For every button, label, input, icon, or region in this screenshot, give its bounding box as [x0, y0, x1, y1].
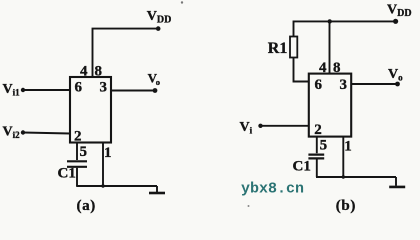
- ground (a): [156, 186, 158, 192]
- node junction rail (b): [328, 19, 332, 23]
- wire output pin3 (a): [111, 90, 154, 92]
- svg-text:Vi: Vi: [240, 120, 253, 136]
- node VDD terminal (a): [156, 26, 161, 31]
- svg-text:C1: C1: [58, 166, 76, 182]
- wire input Vi1 (a): [23, 89, 70, 91]
- svg-text:(b): (b): [336, 198, 356, 214]
- node Vi terminal (b): [258, 124, 262, 128]
- speck top right: [181, 1, 183, 3]
- svg-text:Vi2: Vi2: [3, 125, 21, 141]
- svg-text:6: 6: [315, 77, 323, 93]
- svg-text:3: 3: [340, 77, 348, 93]
- node Vi2 terminal (a): [21, 130, 25, 134]
- wire pin5 stub (a): [76, 143, 78, 161]
- node Vo terminal (b): [395, 82, 400, 87]
- wire bottom rail (b): [316, 176, 396, 178]
- wire output pin3 (b): [351, 83, 396, 85]
- node Vi1 terminal (a): [21, 88, 25, 92]
- svg-text:VDD: VDD: [147, 9, 172, 26]
- svg-text:4: 4: [319, 60, 327, 76]
- wire R1 bottom to pin6 (b): [294, 58, 309, 82]
- wire pin5 stub (b): [316, 137, 318, 154]
- speck bottom left: [248, 205, 250, 207]
- svg-text:1: 1: [344, 138, 352, 154]
- svg-text:VDD: VDD: [387, 3, 412, 20]
- svg-text:R1: R1: [268, 40, 288, 57]
- wire VDD top rail (b): [294, 21, 396, 36]
- svg-text:2: 2: [74, 128, 82, 144]
- ground (b): [395, 177, 397, 186]
- svg-text:ybx8.cn: ybx8.cn: [241, 181, 304, 198]
- svg-text:Vo: Vo: [148, 71, 160, 87]
- capacitor C1 (b): [308, 154, 324, 156]
- svg-text:2: 2: [314, 122, 322, 138]
- svg-text:5: 5: [320, 138, 328, 154]
- resistor R1: [290, 37, 297, 58]
- wire input Vi2 (a): [23, 133, 70, 134]
- wire pin1 stub (a): [102, 143, 104, 187]
- wire pin8 to rail (b): [329, 21, 331, 74]
- IC U1 (a): [70, 77, 111, 143]
- svg-text:5: 5: [80, 144, 88, 160]
- IC U2 (b): [309, 74, 351, 137]
- svg-text:8: 8: [333, 60, 341, 76]
- svg-text:(a): (a): [77, 198, 96, 214]
- node VDD terminal (b): [393, 19, 398, 24]
- svg-text:C1: C1: [293, 159, 311, 175]
- wire C1 to bottom rail (a): [76, 168, 78, 186]
- node junction pin1/rail (a): [101, 184, 104, 187]
- wire C1 to bottom rail (b): [316, 159, 318, 177]
- wire input Vi (b): [261, 125, 309, 127]
- wire VDD top rail (a): [93, 29, 158, 78]
- node Vo terminal (a): [153, 88, 158, 93]
- svg-text:4: 4: [80, 64, 88, 80]
- svg-text:Vi1: Vi1: [3, 82, 21, 98]
- svg-text:1: 1: [104, 145, 112, 161]
- capacitor C1 (a): [67, 160, 87, 162]
- wire bottom rail (a): [76, 185, 157, 187]
- node junction pin1/rail (b): [342, 175, 345, 178]
- svg-text:8: 8: [95, 64, 103, 80]
- wire pin1 stub (b): [342, 137, 344, 177]
- svg-text:6: 6: [75, 80, 83, 96]
- svg-text:3: 3: [100, 80, 108, 96]
- svg-text:Vo: Vo: [388, 67, 403, 83]
